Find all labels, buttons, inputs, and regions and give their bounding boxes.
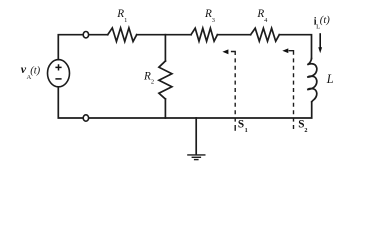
- svg-text:S: S: [238, 119, 244, 131]
- svg-text:R: R: [116, 8, 124, 20]
- svg-text:3: 3: [212, 17, 215, 24]
- svg-text:L: L: [326, 72, 334, 86]
- svg-text:2: 2: [151, 79, 154, 86]
- svg-text:(t): (t): [320, 15, 330, 26]
- svg-text:(t): (t): [30, 65, 40, 76]
- svg-text:R: R: [143, 71, 151, 83]
- svg-text:1: 1: [124, 17, 127, 24]
- svg-text:1: 1: [245, 127, 248, 134]
- svg-text:2: 2: [304, 127, 307, 134]
